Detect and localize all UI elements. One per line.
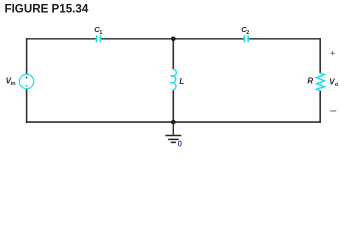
- wire right upper: [319, 38, 321, 73]
- svg-text:in: in: [11, 81, 17, 87]
- capacitor C1 (plates): [97, 35, 101, 42]
- output minus sign: [330, 110, 336, 112]
- svg-text:R: R: [307, 77, 313, 86]
- wire middle upper (inductor top lead): [172, 38, 174, 69]
- svg-text:FIGURE P15.34: FIGURE P15.34: [5, 2, 89, 15]
- source minus mark: [25, 85, 28, 87]
- voltage source Vin (circle): [19, 74, 33, 88]
- output plus sign: [330, 51, 334, 55]
- ground bar 3: [171, 141, 176, 143]
- svg-text:2: 2: [246, 30, 249, 36]
- capacitor C2 (plates): [244, 35, 248, 42]
- svg-text:0: 0: [178, 140, 183, 149]
- svg-text:o: o: [335, 82, 339, 88]
- ground stem: [172, 122, 174, 135]
- wire left upper (source top lead): [26, 38, 28, 74]
- source plus mark: [25, 76, 28, 79]
- wire top-middle segment: [101, 38, 243, 40]
- ground bar 1: [165, 135, 181, 137]
- node junction dot bottom (ground node): [171, 120, 176, 125]
- inductor L (coil): [171, 69, 176, 90]
- ground bar 2: [168, 138, 179, 140]
- svg-text:1: 1: [99, 30, 102, 36]
- wire bottom: [26, 121, 321, 123]
- wire top-right segment: [249, 38, 320, 40]
- wire right lower: [319, 91, 321, 123]
- wire left lower (source bottom lead): [26, 89, 28, 123]
- resistor R (zigzag): [317, 73, 325, 91]
- wire top-left segment: [27, 38, 96, 40]
- svg-text:L: L: [179, 77, 184, 86]
- wire middle lower (inductor bottom lead): [172, 90, 174, 122]
- node junction dot top (node between C1, C2, L): [171, 37, 176, 42]
